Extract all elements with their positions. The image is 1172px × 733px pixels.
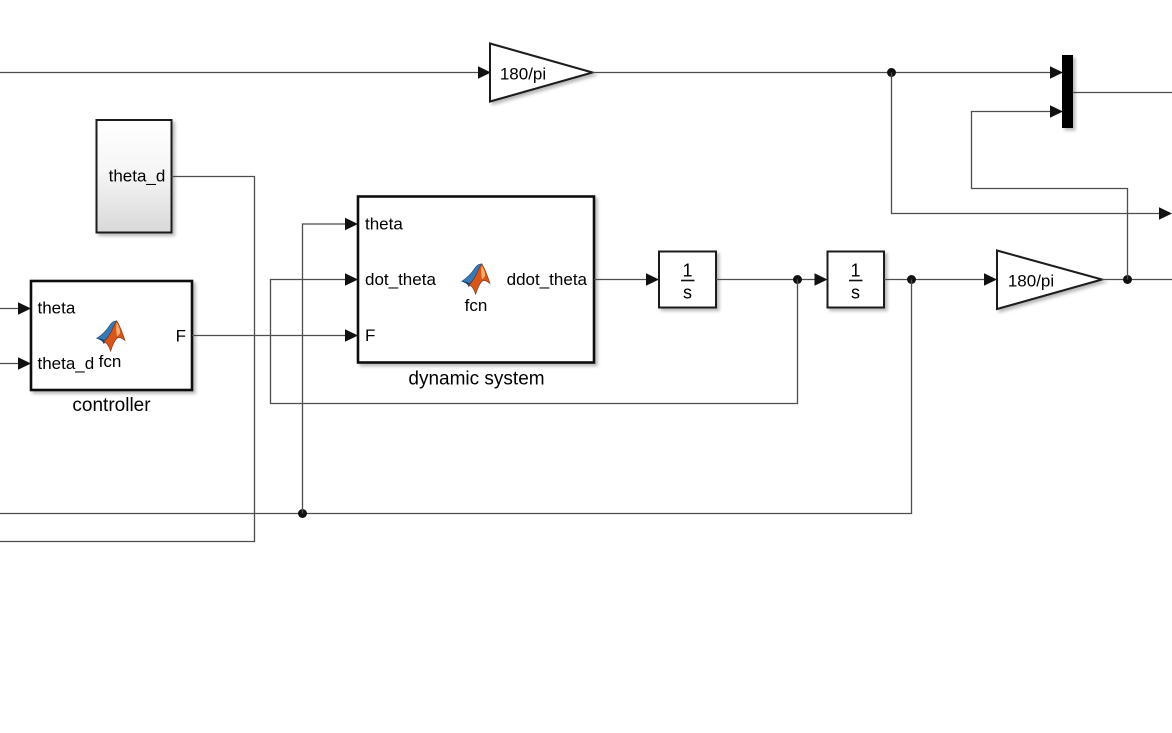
svg-text:theta_d: theta_d <box>38 354 95 373</box>
junction dot on gain G1 output wire <box>887 68 896 77</box>
arrowhead into dynamic system F <box>345 329 358 342</box>
svg-text:ddot_theta: ddot_theta <box>507 270 588 289</box>
source block theta_d <box>97 120 172 233</box>
wire branch from junction down and right to edge <box>892 73 1160 214</box>
svg-text:dynamic system: dynamic system <box>408 369 544 390</box>
wire branch from G2 output up and into mux input 2 <box>972 112 1128 280</box>
wire dynamic system output to integrator I1 <box>594 279 646 281</box>
arrowhead into mux input 2 <box>1050 105 1063 118</box>
arrowhead into controller theta <box>18 302 31 315</box>
junction dot on I2 output wire <box>907 275 916 284</box>
controller MATLAB Function block <box>31 281 192 390</box>
wire theta_d output: right, down, left off-canvas <box>0 177 255 542</box>
arrowhead into integrator I1 <box>646 273 659 286</box>
junction dot on I1 output wire <box>793 275 802 284</box>
wire gain G2 output to right edge <box>1102 279 1172 281</box>
svg-text:theta_d: theta_d <box>109 167 166 186</box>
svg-text:F: F <box>176 327 186 346</box>
integrator block I2 (1/s) <box>828 252 885 308</box>
wire controller F output to dynamic system F input <box>192 335 345 337</box>
feedback wire theta: down from I2 output junction, left off-canvas <box>0 280 912 514</box>
svg-text:theta: theta <box>38 299 76 318</box>
dynamic system MATLAB Function block <box>358 197 594 363</box>
svg-text:F: F <box>365 326 375 345</box>
wire gain G1 output to mux input 1 <box>593 72 1051 74</box>
integrator block I1 (1/s) <box>659 252 716 308</box>
arrowhead into mux input 1 <box>1050 66 1063 79</box>
svg-text:dot_theta: dot_theta <box>365 270 436 289</box>
integrator I1 fraction bar <box>681 280 695 282</box>
junction dot on theta feedback wire <box>298 509 307 518</box>
arrowhead into dynamic system theta <box>345 218 358 231</box>
controller MATLAB membrane logo <box>97 321 125 351</box>
wire mux output to right edge <box>1073 92 1172 94</box>
svg-text:s: s <box>851 283 860 303</box>
wire from left edge into gain G1 <box>0 72 478 74</box>
svg-text:1: 1 <box>850 261 860 281</box>
arrowhead into controller theta_d <box>18 357 31 370</box>
svg-text:fcn: fcn <box>99 352 122 371</box>
arrowhead into gain G2 <box>984 273 997 286</box>
arrowhead into integrator I2 <box>815 273 828 286</box>
integrator I2 fraction bar <box>849 280 863 282</box>
svg-text:s: s <box>683 283 692 303</box>
svg-text:1: 1 <box>682 261 692 281</box>
gain G2 (180/pi) <box>997 251 1102 310</box>
svg-text:theta: theta <box>365 215 403 234</box>
wire integrator I2 output to gain G2 <box>884 279 984 281</box>
wire branch up into dynamic system theta input <box>303 224 346 514</box>
svg-text:controller: controller <box>72 395 151 416</box>
wire into controller theta_d input <box>0 363 18 365</box>
feedback wire dot_theta: down, left, up into dynamic system dot_theta <box>271 280 798 404</box>
svg-text:180/pi: 180/pi <box>1008 272 1054 291</box>
arrowhead into dynamic system dot_theta <box>345 273 358 286</box>
dynamic system MATLAB membrane logo <box>462 264 490 294</box>
wire into controller theta input <box>0 308 18 310</box>
arrowhead into gain G1 <box>478 66 491 79</box>
gain G1 (180/pi) <box>490 44 593 102</box>
wire integrator I1 output to integrator I2 <box>716 279 815 281</box>
mux block <box>1062 55 1073 128</box>
arrowhead at right edge y=213 <box>1159 207 1172 220</box>
svg-text:180/pi: 180/pi <box>500 65 546 84</box>
svg-text:fcn: fcn <box>465 296 488 315</box>
junction dot on gain G2 output <box>1123 275 1132 284</box>
